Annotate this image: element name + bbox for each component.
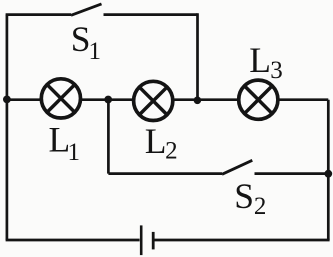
svg-text:S: S	[234, 176, 254, 216]
wire: S2 branch horizontal (right of switch)	[255, 172, 329, 175]
node dot: S2 branch joins right vertical	[324, 170, 332, 178]
wire: left vertical	[6, 15, 9, 240]
wire: vertical from top wire down to node B	[196, 13, 199, 100]
battery: long plate +	[140, 225, 143, 255]
wire: right vertical	[327, 100, 330, 240]
wire: bottom horizontal (right of battery)	[155, 239, 330, 242]
lamp L1	[41, 79, 80, 118]
wire: S2 branch horizontal (left of switch)	[108, 172, 222, 175]
wire: middle horizontal through lamps	[6, 98, 329, 101]
svg-text:2: 2	[165, 138, 178, 165]
svg-text:1: 1	[89, 38, 102, 65]
switch S2	[222, 160, 252, 174]
node dot: left wire / middle wire junction	[3, 96, 11, 104]
battery: short plate -	[152, 232, 155, 250]
svg-text:3: 3	[270, 57, 283, 84]
node dot: junction between L1 and L2 (top of S2 branch)	[104, 96, 112, 104]
wire: bottom horizontal (left of battery)	[6, 239, 140, 242]
lamp L2	[134, 81, 173, 120]
svg-text:1: 1	[68, 139, 81, 166]
switch S1	[71, 4, 102, 15]
wire: S2 branch vertical from node	[107, 100, 110, 174]
svg-text:L: L	[145, 121, 167, 161]
wire: top horizontal (right of S1)	[104, 13, 198, 16]
wire: top horizontal (left of S1)	[6, 13, 71, 16]
svg-text:2: 2	[254, 193, 267, 220]
lamp L3	[239, 80, 278, 119]
svg-text:L: L	[249, 40, 271, 80]
node dot: junction of top-wire vertical with middle wire	[194, 97, 202, 105]
